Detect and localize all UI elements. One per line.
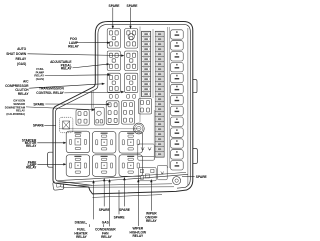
leader wiper high/low: [137, 179, 139, 226]
leader bottom condenser fan: [108, 179, 110, 226]
label wiper high/low relay: [130, 227, 147, 239]
label oxygen sensor: [5, 99, 26, 116]
label top spare 1: [109, 4, 121, 8]
leader wiper on/off: [150, 179, 152, 211]
svg-text:(GAS): (GAS): [36, 77, 44, 81]
svg-text:SPARE: SPARE: [127, 4, 139, 8]
big relay r1c3: [119, 132, 143, 154]
label a/c compressor clutch relay: [5, 79, 29, 96]
inner case ridge: [109, 24, 191, 188]
leader spare lower: [44, 124, 56, 126]
svg-text:SPARE: SPARE: [119, 208, 131, 212]
label bottom spare 2: [119, 208, 131, 212]
relay left expansion: [76, 110, 89, 126]
leader adjustable pedal: [73, 63, 110, 68]
leader bottom spare2: [123, 177, 125, 206]
label spare upper left: [33, 103, 45, 107]
svg-text:A/C: A/C: [23, 79, 29, 83]
svg-text:SPARE: SPARE: [33, 103, 45, 107]
bottom shelf line b: [63, 186, 174, 189]
svg-text:SHUT DOWN: SHUT DOWN: [6, 52, 27, 56]
screw center: [133, 123, 144, 134]
label spare lower left: [33, 124, 45, 128]
leader top spare 2: [129, 8, 131, 30]
divider between relay and fuse areas: [139, 27, 141, 123]
right tab lower: [193, 149, 198, 164]
fuse block C: [157, 165, 167, 179]
relay col2 row4: [122, 101, 135, 125]
leader auto shut down: [28, 54, 125, 57]
big relay r2c2 (condenser fan): [92, 155, 116, 177]
shelf above big relays: [59, 128, 140, 130]
inner recess wall at diagonal: [90, 91, 92, 111]
relay col1 row1 (fog lamp relay): [107, 29, 120, 48]
relay col2 row1: [125, 29, 138, 48]
svg-text:(GAS): (GAS): [17, 62, 26, 66]
svg-text:RELAY: RELAY: [68, 45, 80, 49]
label bottom spare 3: [114, 215, 126, 219]
bottom shelf line a: [78, 184, 172, 186]
leader transmission control: [64, 91, 124, 93]
leader bottom fuel heater: [92, 180, 94, 219]
gas bracket tick: [103, 224, 105, 227]
leader bottom spare3: [118, 190, 120, 214]
svg-text:RELAY: RELAY: [146, 219, 158, 223]
label gas condenser fan relay: [95, 220, 116, 239]
svg-text:RELAY: RELAY: [101, 235, 113, 239]
starter motor relay: [66, 131, 90, 153]
svg-text:SPARE: SPARE: [109, 4, 121, 8]
leader fuel pump: [45, 74, 111, 76]
label park lamp relay: [26, 160, 37, 169]
leader top spare 1: [112, 8, 114, 30]
leader starter motor: [37, 142, 66, 144]
big relay r1c2: [92, 132, 116, 154]
leader fog lamp: [77, 42, 110, 44]
label adjustable pedal relay: [50, 60, 72, 71]
label starter motor relay: [22, 138, 37, 148]
bottom-left mounting bracket: [53, 182, 64, 191]
svg-text:(CALIFORNIA): (CALIFORNIA): [6, 112, 25, 116]
outer case outline: [53, 22, 193, 194]
leader oxygen sensor: [26, 107, 95, 111]
module with screw: [95, 107, 105, 125]
label diesel fuel heater relay: [74, 220, 88, 239]
svg-text:RELAY: RELAY: [26, 166, 37, 170]
bottom wall ridge upper: [58, 172, 187, 180]
label fog lamp relay: [68, 37, 80, 48]
park lamp relay: [66, 155, 90, 177]
svg-text:SPARE: SPARE: [99, 208, 111, 212]
right tab upper: [193, 80, 197, 93]
relay col2 row2: [125, 51, 138, 71]
label fuel pump relay: [34, 67, 44, 81]
leader right spare: [182, 175, 195, 177]
svg-text:RELAY: RELAY: [61, 67, 73, 71]
label right spare: [196, 175, 208, 179]
relay col1 row2: [107, 51, 120, 71]
label wiper on/off relay: [145, 212, 157, 224]
svg-text:GAS: GAS: [102, 220, 110, 224]
svg-text:RELAY: RELAY: [76, 235, 88, 239]
left tab: [48, 152, 53, 167]
label auto shut down relay: [6, 47, 27, 66]
fuse block B: [139, 168, 157, 181]
svg-text:CONTROL RELAY: CONTROL RELAY: [36, 91, 64, 95]
leader bottom spare1: [103, 178, 105, 206]
svg-text:RELAY: RELAY: [16, 57, 28, 61]
divider left of cartridge fuses: [167, 27, 169, 168]
svg-text:SPARE: SPARE: [114, 215, 126, 219]
label top spare 2: [127, 4, 139, 8]
svg-text:RELAY: RELAY: [132, 234, 144, 238]
pad row under col1 row3: [109, 95, 135, 99]
connector block: [60, 117, 73, 133]
big relay r2c3 (wiper): [119, 155, 143, 177]
relay col2 row3: [125, 73, 138, 93]
divider between fuse strips: [152, 29, 154, 98]
label bottom spare 1: [99, 208, 111, 212]
svg-text:AUTO: AUTO: [17, 47, 27, 51]
relay col1 row4: [106, 101, 119, 125]
relay col1 row3: [107, 73, 120, 93]
inner right wall line: [187, 28, 189, 185]
bottom wall ridge lower: [56, 174, 188, 183]
fuse block A: [138, 144, 155, 160]
diesel bracket tick: [89, 224, 91, 227]
svg-text:SPARE: SPARE: [196, 175, 208, 179]
svg-text:SPARE: SPARE: [33, 124, 45, 128]
relay col3 row4: [139, 99, 152, 115]
bottom flange lower line: [93, 195, 163, 198]
svg-text:RELAY: RELAY: [18, 92, 30, 96]
leader a/c compressor: [29, 83, 105, 89]
leader park lamp: [37, 163, 66, 165]
leader spare upper: [45, 103, 110, 105]
screw bottom right: [173, 177, 181, 185]
svg-text:DIESEL,: DIESEL,: [75, 220, 88, 224]
svg-text:RELAY: RELAY: [26, 144, 37, 148]
label transmission control relay: [36, 87, 64, 95]
